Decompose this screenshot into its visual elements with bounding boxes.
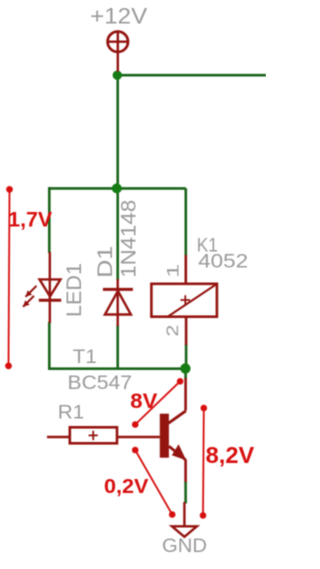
svg-text:1N4148: 1N4148 [118, 200, 141, 278]
svg-text:BC547: BC547 [68, 373, 133, 394]
svg-text:+12V: +12V [90, 4, 147, 29]
svg-text:8V: 8V [130, 390, 157, 413]
svg-text:GND: GND [162, 536, 207, 557]
svg-text:T1: T1 [73, 347, 97, 368]
svg-text:LED1: LED1 [63, 263, 86, 317]
svg-text:1: 1 [164, 264, 183, 278]
svg-text:2: 2 [163, 325, 182, 337]
svg-text:4052: 4052 [198, 251, 248, 272]
svg-text:8,2V: 8,2V [206, 442, 255, 468]
svg-text:0,2V: 0,2V [104, 476, 149, 498]
svg-text:1,7V: 1,7V [8, 208, 52, 231]
svg-text:D1: D1 [94, 246, 117, 278]
svg-text:R1: R1 [58, 403, 85, 424]
